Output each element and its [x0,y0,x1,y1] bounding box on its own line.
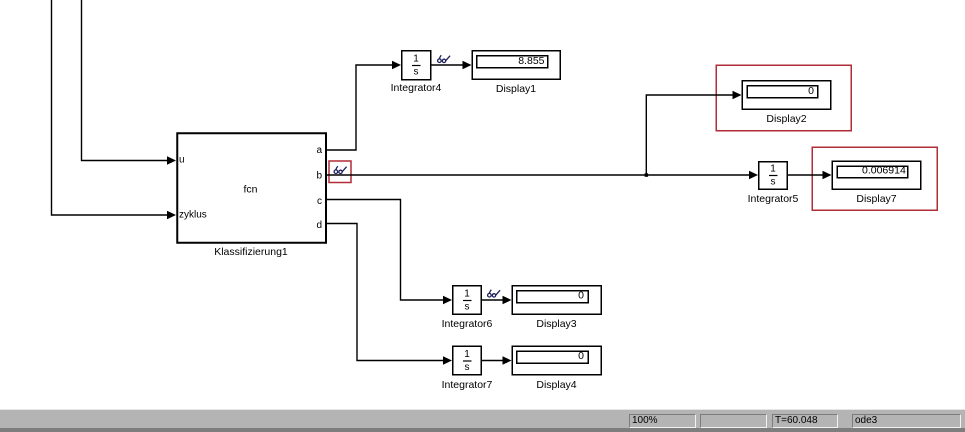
svg-text:fcn: fcn [243,184,257,196]
wire from port d to Integrator7 [325,224,444,361]
red selection box around port-b logging badge [329,161,351,183]
signal logging badge at port b [334,166,347,173]
svg-text:1: 1 [413,54,419,65]
arrowhead into Display7 [823,171,832,180]
status bar [0,409,965,410]
svg-text:Klassifizierung1: Klassifizierung1 [214,246,288,258]
block Integrator7 [453,346,482,375]
arrowhead into Integrator6 [443,296,452,305]
signal logging badge after Integrator4 [438,55,451,62]
block Display4 [512,346,601,375]
block Display1 [472,51,560,80]
block Integrator6 [453,286,482,315]
svg-text:Display4: Display4 [536,379,576,391]
block Display3 [512,286,601,315]
svg-text:s: s [414,67,419,78]
wire from port c to Integrator6 [325,200,444,301]
svg-text:s: s [465,302,470,313]
red selection box around Display7 [812,147,937,210]
arrowhead into Integrator7 [443,356,452,365]
arrowhead into Integrator4 [392,61,401,70]
svg-text:a: a [316,145,322,156]
arrowhead into Integrator5 [749,171,758,180]
svg-text:u: u [179,155,185,166]
svg-text:Display3: Display3 [536,318,576,330]
wire from top into u input [82,0,169,161]
wire Integrator5 to Display7 [788,174,823,176]
status panel empty [700,414,767,428]
arrowhead into Display1 [463,61,472,70]
arrowhead into u port [167,156,176,165]
svg-text:8.855: 8.855 [518,55,544,67]
subsystem block Klassifizierung1 [177,133,326,243]
svg-text:1: 1 [464,349,470,360]
wire Integrator6 to Display3 [482,299,503,301]
svg-text:c: c [317,196,322,207]
status bar bottom dark strip [0,428,965,432]
svg-text:b: b [316,170,322,181]
svg-text:s: s [465,362,470,373]
svg-text:0: 0 [808,85,814,97]
svg-text:d: d [316,220,322,231]
svg-text:0.006914: 0.006914 [862,165,906,177]
block Integrator4 [402,51,431,80]
wire Integrator4 to Display1 [431,64,463,66]
signal logging badge after Integrator6 [488,290,501,297]
branch wire from junction up to Display2 [646,95,733,175]
svg-text:Display7: Display7 [856,193,896,205]
block Display2 [742,81,831,110]
svg-text:zyklus: zyklus [179,210,207,221]
junction dot on wire b [645,173,649,177]
status panel solver [852,414,961,428]
svg-text:1: 1 [464,289,470,300]
arrowhead into Display2 [733,91,742,100]
svg-text:Integrator6: Integrator6 [442,318,493,330]
svg-text:Integrator5: Integrator5 [748,193,799,205]
svg-text:0: 0 [578,290,584,302]
wire from port b to Integrator5 [325,174,749,176]
wire from port a to Integrator4 [325,65,393,150]
svg-text:Display2: Display2 [766,113,806,125]
wire Integrator7 to Display4 [482,360,503,362]
arrowhead into zyklus port [167,211,176,220]
svg-text:s: s [771,177,776,188]
arrowhead into Display4 [503,356,512,365]
block Integrator5 [759,162,788,190]
svg-text:1: 1 [770,164,776,175]
svg-text:Integrator4: Integrator4 [391,82,442,94]
arrowhead into Display3 [503,296,512,305]
svg-text:Integrator7: Integrator7 [442,379,493,391]
block Display7 [832,161,921,189]
svg-text:Display1: Display1 [496,83,536,95]
wire from top into zyklus input [52,0,169,215]
red selection box around Display2 [716,65,851,131]
status panel time [772,414,838,428]
svg-text:0: 0 [578,350,584,362]
status panel zoom [629,414,696,428]
